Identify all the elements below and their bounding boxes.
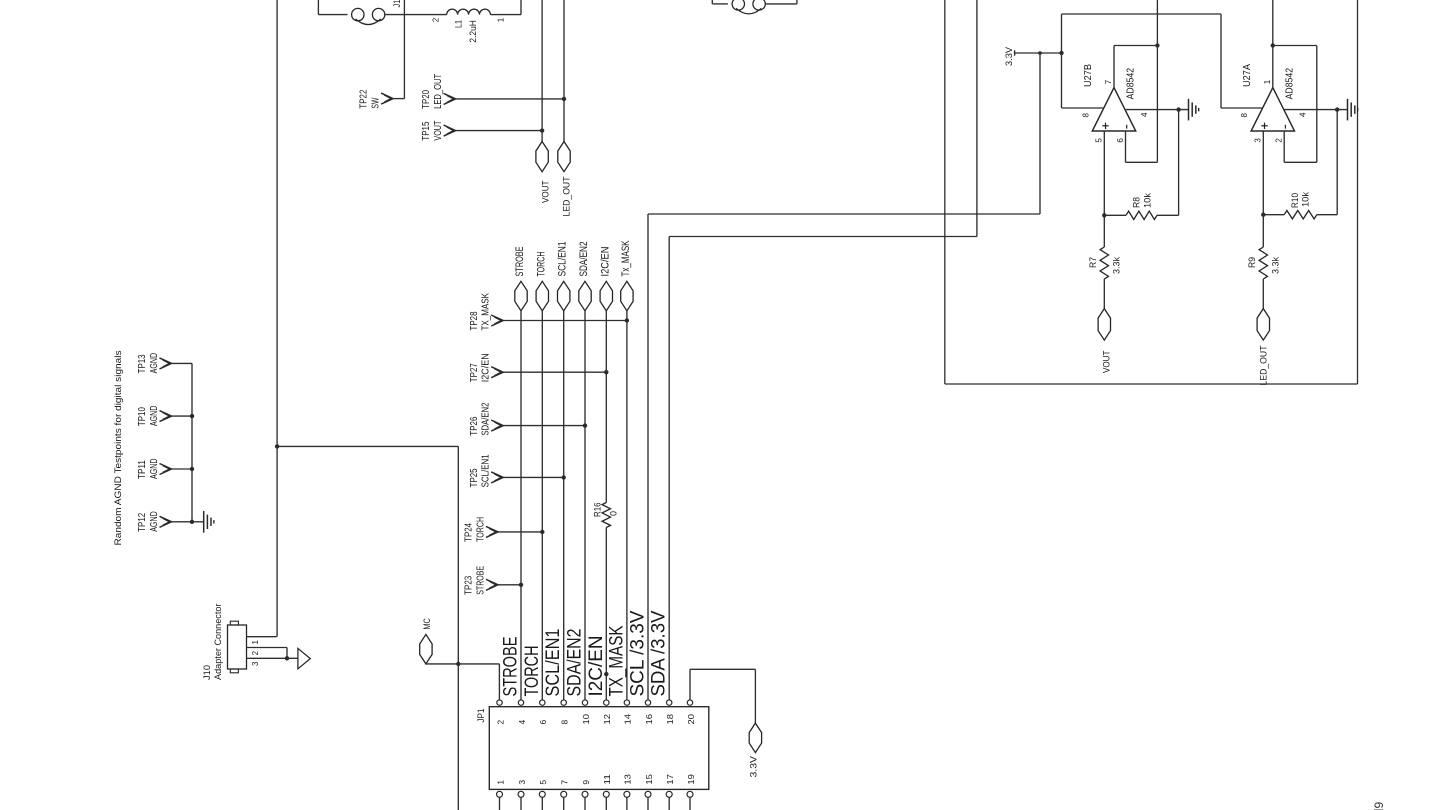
svg-text:9: 9 [1372, 802, 1386, 809]
svg-text:R8: R8 [1132, 197, 1143, 208]
svg-text:12: 12 [602, 714, 612, 725]
svg-text:I2C/EN: I2C/EN [585, 636, 607, 697]
svg-text:LED_OUT: LED_OUT [1258, 345, 1268, 385]
svg-text:TP25: TP25 [468, 468, 480, 487]
svg-text:TP11: TP11 [136, 460, 148, 479]
svg-text:18: 18 [665, 714, 675, 725]
svg-text:JP1: JP1 [476, 709, 486, 723]
svg-text:3: 3 [1254, 138, 1263, 143]
svg-text:TX_MASK: TX_MASK [480, 293, 492, 331]
svg-text:VOUT: VOUT [540, 180, 550, 203]
svg-text:SCL/EN1: SCL/EN1 [542, 629, 564, 697]
svg-text:SDA /3.3V: SDA /3.3V [648, 611, 670, 697]
svg-text:3.3V: 3.3V [749, 756, 759, 778]
svg-text:13: 13 [623, 774, 633, 785]
svg-text:LED_OUT: LED_OUT [561, 176, 571, 216]
svg-text:10: 10 [581, 714, 591, 725]
svg-text:TORCH: TORCH [474, 517, 486, 542]
svg-text:16: 16 [644, 714, 654, 725]
svg-text:TP10: TP10 [136, 407, 148, 426]
svg-text:3: 3 [517, 780, 527, 785]
svg-text:1: 1 [496, 17, 505, 22]
svg-text:TORCH: TORCH [521, 646, 543, 697]
svg-text:7: 7 [560, 780, 570, 785]
svg-text:TP12: TP12 [136, 513, 148, 532]
svg-text:TP24: TP24 [463, 523, 475, 542]
svg-text:R9: R9 [1247, 257, 1257, 268]
svg-text:STROBE: STROBE [500, 637, 522, 697]
svg-text:L1: L1 [454, 20, 464, 28]
svg-text:5: 5 [538, 780, 548, 785]
svg-text:17: 17 [665, 774, 675, 785]
svg-text:I2C/EN: I2C/EN [599, 246, 611, 276]
svg-text:4: 4 [517, 720, 527, 725]
svg-text:6: 6 [538, 720, 548, 725]
svg-text:TP23: TP23 [463, 576, 475, 595]
svg-text:2: 2 [1275, 138, 1284, 143]
svg-text:4: 4 [1140, 112, 1149, 117]
svg-text:TX_MASK: TX_MASK [605, 626, 627, 697]
svg-text:10k: 10k [1301, 192, 1312, 207]
svg-text:SDA/EN2: SDA/EN2 [564, 629, 586, 697]
svg-text:J13: J13 [392, 0, 402, 8]
svg-text:SCL/EN1: SCL/EN1 [557, 242, 569, 277]
svg-text:10k: 10k [1143, 193, 1154, 208]
svg-text:2: 2 [251, 650, 260, 655]
svg-text:6: 6 [1116, 138, 1125, 143]
svg-text:2.2uH: 2.2uH [468, 20, 478, 43]
svg-text:TP27: TP27 [468, 363, 480, 382]
svg-text:TP13: TP13 [136, 354, 148, 373]
svg-text:8: 8 [560, 720, 570, 725]
svg-text:1: 1 [1263, 79, 1272, 84]
svg-text:SCL/EN1: SCL/EN1 [480, 454, 492, 487]
svg-text:Random AGND Testpoints for dig: Random AGND Testpoints for digital signa… [113, 350, 124, 545]
svg-text:TORCH: TORCH [535, 251, 547, 276]
svg-text:3.3V: 3.3V [1004, 47, 1014, 66]
svg-text:AD8542: AD8542 [1285, 68, 1296, 100]
svg-text:8: 8 [1081, 113, 1090, 118]
svg-text:0: 0 [609, 511, 619, 516]
svg-text:R16: R16 [593, 503, 603, 518]
svg-text:J10: J10 [202, 665, 213, 680]
svg-text:TP28: TP28 [468, 311, 480, 330]
svg-text:R7: R7 [1088, 257, 1098, 268]
svg-text:3.3k: 3.3k [1270, 257, 1280, 274]
svg-text:SDA/EN2: SDA/EN2 [480, 402, 492, 435]
svg-text:STROBE: STROBE [474, 566, 486, 595]
svg-text:9: 9 [581, 780, 591, 785]
svg-text:1: 1 [495, 780, 505, 785]
svg-text:U27B: U27B [1082, 64, 1094, 87]
svg-text:SCL /3.3V: SCL /3.3V [627, 611, 649, 697]
svg-text:14: 14 [623, 714, 633, 725]
svg-text:AGND: AGND [148, 405, 160, 426]
svg-text:1: 1 [251, 640, 260, 645]
svg-text:20: 20 [686, 714, 696, 725]
svg-text:LED_OUT: LED_OUT [432, 73, 444, 108]
svg-text:U27A: U27A [1241, 64, 1253, 87]
svg-text:VOUT: VOUT [432, 120, 444, 140]
svg-text:TP15: TP15 [420, 121, 432, 140]
svg-text:AGND: AGND [148, 511, 160, 532]
svg-text:R10: R10 [1290, 193, 1301, 208]
svg-text:11: 11 [602, 774, 612, 785]
svg-text:19: 19 [686, 774, 696, 785]
svg-text:5: 5 [1095, 138, 1104, 143]
svg-text:15: 15 [644, 774, 654, 785]
svg-text:VOUT: VOUT [1102, 350, 1112, 373]
svg-text:TP26: TP26 [468, 416, 480, 435]
svg-text:SDA/EN2: SDA/EN2 [578, 242, 590, 277]
svg-text:3: 3 [251, 661, 260, 666]
svg-text:2: 2 [432, 17, 441, 22]
svg-text:TP22: TP22 [358, 89, 370, 108]
svg-text:I2C/EN: I2C/EN [480, 353, 492, 382]
svg-text:2: 2 [495, 720, 505, 725]
svg-text:8: 8 [1240, 113, 1249, 118]
svg-text:AGND: AGND [148, 458, 160, 479]
svg-text:STROBE: STROBE [514, 247, 526, 277]
svg-text:Adapter Connector: Adapter Connector [213, 604, 224, 681]
svg-text:Tx_MASK: Tx_MASK [620, 240, 632, 276]
svg-text:4: 4 [1299, 112, 1308, 117]
svg-text:AD8542: AD8542 [1125, 68, 1136, 100]
svg-text:3.3k: 3.3k [1111, 257, 1121, 274]
svg-text:7: 7 [1104, 79, 1113, 84]
svg-text:TP20: TP20 [420, 90, 432, 109]
svg-text:AGND: AGND [148, 353, 160, 374]
svg-text:MC: MC [422, 618, 433, 630]
svg-text:SW: SW [369, 98, 381, 109]
